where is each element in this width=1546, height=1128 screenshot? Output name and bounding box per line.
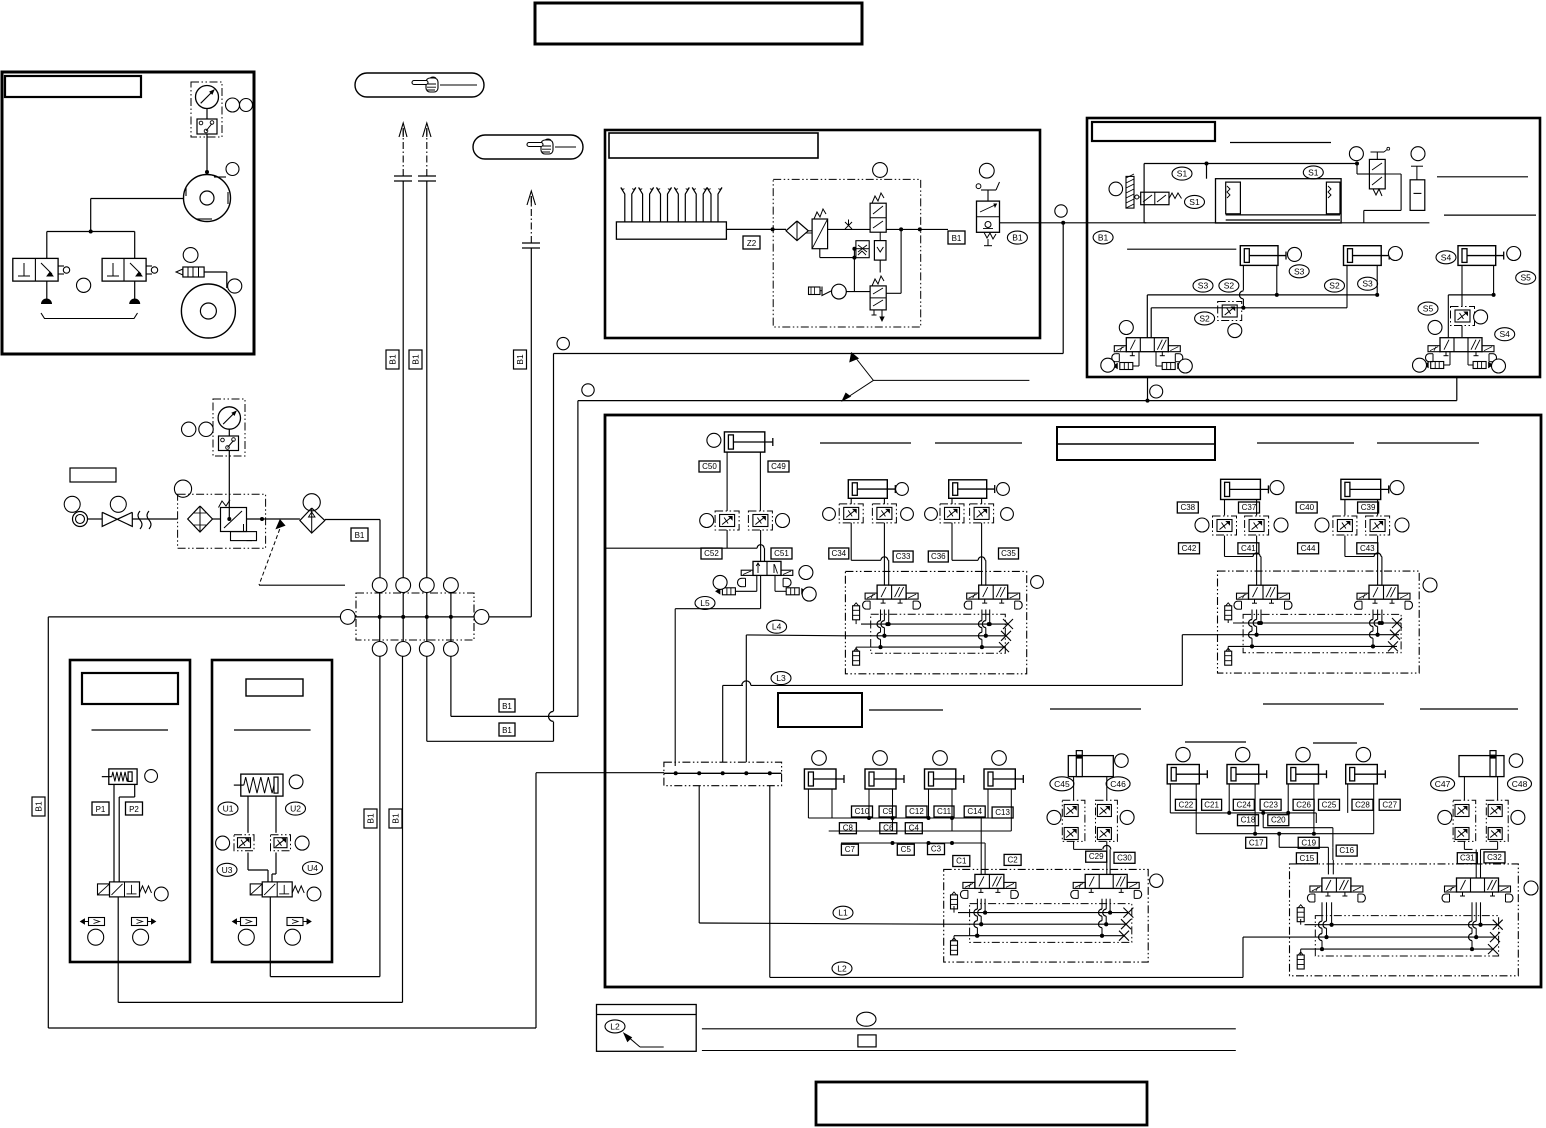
wire C38 down	[1224, 536, 1226, 557]
label C25	[1319, 799, 1340, 810]
label U3 oval	[217, 863, 237, 876]
svg-text:B1: B1	[388, 354, 398, 365]
cylinder C33	[848, 480, 887, 499]
bus3 i2	[1228, 645, 1397, 647]
svg-text:L2: L2	[610, 1021, 620, 1031]
lever valve E	[1369, 159, 1385, 189]
valve S1	[1141, 192, 1169, 205]
fcv C40	[1333, 516, 1357, 535]
wire lever-reservoir	[1385, 173, 1401, 175]
legend box	[597, 1005, 697, 1052]
fcv U left	[234, 835, 254, 851]
wire C51 drain left	[756, 575, 758, 591]
svg-text:S1: S1	[1189, 197, 1200, 207]
wire C37 down	[1256, 536, 1258, 586]
bottom title box	[816, 1082, 1147, 1125]
balloon	[992, 751, 1007, 766]
svg-text:C14: C14	[967, 807, 982, 816]
boxE blank line2	[1437, 176, 1528, 178]
wire C49 fcv down	[760, 530, 762, 561]
panel box U	[212, 660, 332, 962]
svg-text:S2: S2	[1329, 281, 1340, 291]
svg-text:C17: C17	[1249, 838, 1264, 847]
wire ES2b feet	[1346, 265, 1348, 307]
svg-text:B1: B1	[366, 813, 376, 824]
svg-text:C48: C48	[1512, 779, 1528, 789]
port balloon	[419, 578, 434, 593]
pressure gauge B	[218, 407, 240, 429]
oval S1 c	[1303, 166, 1323, 179]
muffler C51a	[722, 588, 735, 595]
label C41	[1238, 543, 1259, 554]
wire i4 vB down	[1480, 902, 1482, 924]
svg-text:C2: C2	[1007, 855, 1018, 864]
svg-text:C20: C20	[1271, 816, 1286, 825]
cylinder r2m2	[1227, 765, 1259, 784]
cylinder P	[109, 769, 137, 785]
balloon	[557, 337, 569, 349]
label C36	[928, 551, 948, 562]
bus r2m A	[1170, 812, 1316, 814]
muffler EL2	[1162, 363, 1175, 370]
valve island3 B	[1085, 874, 1127, 888]
svg-text:B1: B1	[1012, 233, 1023, 243]
cylinder row2-4	[984, 769, 1015, 789]
boxE blank line1	[1230, 142, 1331, 144]
xmark i4 3	[1488, 944, 1498, 954]
wire P out	[117, 897, 119, 962]
label U4 oval	[303, 862, 323, 875]
label C39	[1358, 502, 1379, 513]
blank line r2f	[1313, 742, 1357, 744]
label U2 oval	[286, 802, 306, 815]
svg-text:C33: C33	[896, 552, 911, 561]
balloon	[226, 163, 239, 176]
label C42	[1179, 543, 1200, 554]
valve E right	[1440, 338, 1482, 352]
muffler i2a	[1225, 606, 1232, 620]
venturi muffler	[809, 287, 821, 295]
pressure switch A	[197, 119, 217, 134]
fcv C33	[872, 504, 896, 523]
note pill 1	[355, 73, 484, 97]
balloon	[154, 887, 168, 901]
oval L3	[771, 672, 791, 685]
balloon	[174, 480, 191, 497]
box P divider line	[92, 729, 169, 731]
wire r2l into island	[980, 818, 982, 874]
balloon	[1423, 578, 1437, 592]
svg-text:Z2: Z2	[747, 239, 757, 248]
oval S5 r	[1516, 271, 1536, 284]
balloon	[1509, 754, 1523, 768]
wire r2m1 feet	[1169, 784, 1171, 813]
label C34	[829, 548, 849, 559]
port balloon	[340, 610, 355, 625]
cylinder r2m3	[1287, 765, 1319, 784]
wire C46 down	[1106, 841, 1108, 874]
label C26	[1293, 799, 1314, 810]
wire P loop	[117, 962, 119, 1002]
svg-text:B1: B1	[502, 702, 512, 711]
svg-text:L4: L4	[772, 622, 782, 632]
wire i4 vA down	[1331, 902, 1333, 924]
cylinder row2-3	[925, 769, 956, 789]
oval C45	[1050, 777, 1074, 791]
balloon	[901, 508, 914, 521]
wire S4 fcv down	[1461, 326, 1463, 338]
legend rect mark	[858, 1035, 876, 1047]
restrictor star2	[856, 241, 869, 258]
label B1 line1	[499, 699, 515, 712]
wire C39 feet	[1344, 500, 1346, 516]
balloon	[64, 496, 80, 512]
wire switch to main	[228, 451, 230, 520]
rotary pump A2	[181, 284, 235, 338]
label C9	[879, 806, 896, 817]
label C22	[1175, 799, 1196, 810]
svg-text:B1: B1	[515, 354, 525, 365]
wire r2c2 feet	[868, 789, 870, 818]
wire i3 vB down	[1109, 899, 1111, 913]
balloon	[133, 929, 149, 945]
balloon	[1413, 358, 1427, 372]
svg-text:C37: C37	[1242, 503, 1257, 512]
svg-text:S3: S3	[1198, 281, 1209, 291]
riser B1 left arrow	[402, 181, 404, 578]
oval C47	[1431, 777, 1455, 791]
hand valve A2	[102, 258, 146, 281]
label C31	[1457, 853, 1477, 864]
label C35	[999, 548, 1019, 559]
wire C33 feet	[850, 498, 852, 504]
manual valve B1	[977, 201, 1000, 232]
wire reg out	[247, 518, 300, 520]
balloon	[1388, 247, 1402, 261]
blank line boxE low	[1127, 248, 1236, 250]
xmark i2 1	[1392, 618, 1402, 628]
svg-text:C49: C49	[771, 462, 786, 471]
balloon	[285, 929, 301, 945]
muffler i4b	[1297, 955, 1304, 969]
boxE top rail	[1144, 163, 1357, 165]
hand valve A1	[13, 258, 58, 281]
rail S4 segment	[1448, 294, 1493, 296]
svg-text:C10: C10	[855, 807, 870, 816]
svg-text:U4: U4	[307, 863, 318, 873]
fcv C36	[940, 504, 964, 523]
wire C37 feet	[1224, 500, 1226, 516]
wire filter to pump2	[204, 271, 227, 273]
svg-text:C5: C5	[901, 845, 912, 854]
balloon	[228, 279, 242, 293]
label C12	[906, 806, 927, 817]
valve island4 B	[1457, 878, 1499, 892]
wire boxE right drain	[1456, 378, 1458, 401]
wire U cyl-fcv	[247, 796, 249, 833]
balloon	[199, 422, 213, 436]
wire L1	[698, 786, 700, 923]
carriage unit E	[1216, 179, 1342, 223]
valve C51 caps	[738, 578, 742, 586]
svg-text:C13: C13	[995, 808, 1010, 817]
cylinder r2m4	[1346, 765, 1378, 784]
port balloon	[372, 578, 387, 593]
balloon	[289, 775, 303, 789]
oval S4 low	[1495, 328, 1515, 341]
svg-text:C42: C42	[1182, 544, 1197, 553]
label C15	[1296, 853, 1317, 864]
svg-text:B1: B1	[411, 354, 421, 365]
cylinder ES2a	[1240, 246, 1278, 266]
label C50	[699, 461, 720, 472]
valve P	[110, 882, 140, 897]
cylinder ES4	[1458, 246, 1496, 266]
box U title block	[246, 679, 303, 696]
oval S2 low	[1195, 312, 1215, 325]
balloon	[1507, 247, 1521, 261]
svg-text:C45: C45	[1054, 779, 1070, 789]
solenoid valve D2	[870, 286, 886, 310]
blank line r2d	[1420, 708, 1518, 710]
box D title block	[609, 133, 818, 158]
exhaust A1	[41, 299, 52, 305]
valve island3 A	[975, 874, 1004, 888]
wire C39 down	[1377, 536, 1379, 586]
balloon	[226, 98, 240, 112]
wire pump to valves	[91, 198, 184, 200]
svg-text:C12: C12	[909, 807, 924, 816]
balloon	[1315, 518, 1329, 532]
balloon	[1492, 359, 1506, 373]
regulator D	[812, 219, 828, 249]
bus2 i1	[845, 635, 1006, 637]
balloon	[110, 496, 126, 512]
manifold rail	[341, 616, 489, 618]
balloon	[238, 929, 254, 945]
filter unit dashdot	[178, 494, 266, 548]
fcv grp C45	[1062, 800, 1085, 841]
balloon	[707, 433, 721, 447]
wire reg feedback	[819, 249, 821, 258]
muffler i2b	[1225, 651, 1232, 665]
wire pilot loop	[886, 228, 948, 230]
oval S3 m	[1193, 279, 1213, 292]
svg-text:C30: C30	[1117, 853, 1132, 862]
wire supply riser	[379, 577, 381, 579]
wall mount S1	[1126, 176, 1134, 208]
oval S2 m	[1219, 279, 1239, 292]
wire C36 down	[951, 523, 953, 561]
port balloon	[372, 642, 387, 657]
svg-text:U1: U1	[223, 804, 234, 814]
legend line2	[702, 1050, 1236, 1052]
muffler i3b	[951, 941, 958, 955]
muffler ER2	[1473, 362, 1486, 369]
wire r2c3 feet	[928, 789, 930, 818]
svg-text:C27: C27	[1382, 800, 1397, 809]
lubricator	[300, 508, 325, 533]
svg-text:U3: U3	[222, 865, 233, 875]
balloon	[1524, 881, 1538, 895]
boxF title block row1	[1057, 427, 1215, 460]
muffler ER1	[1431, 362, 1444, 369]
oval S5 l	[1418, 302, 1438, 315]
balloon	[1395, 518, 1409, 532]
fcv C38	[1213, 516, 1237, 535]
box U divider line	[234, 729, 311, 731]
wire C49 feet	[726, 452, 728, 511]
svg-text:B1: B1	[1098, 232, 1109, 242]
svg-text:S5: S5	[1423, 304, 1434, 314]
wire P cyl-valve	[113, 784, 115, 882]
svg-text:C52: C52	[704, 549, 719, 558]
wire boxD drain	[1062, 223, 1064, 354]
legend arrow	[640, 1046, 664, 1048]
label B1 PU1	[364, 809, 377, 828]
clamp cyl C47	[1459, 756, 1504, 777]
label C44	[1298, 543, 1319, 554]
wire boxD out	[1000, 222, 1147, 224]
cylinder C35	[949, 480, 987, 499]
svg-text:C9: C9	[882, 807, 893, 816]
bus3 i4	[1301, 948, 1493, 950]
label C2	[1004, 854, 1021, 865]
panel box A	[2, 72, 254, 354]
label C27	[1379, 799, 1400, 810]
label B1 loop	[32, 797, 45, 816]
riser B1 third arrow	[530, 248, 532, 617]
svg-text:S4: S4	[1499, 329, 1510, 339]
bus3 i3	[954, 935, 1124, 937]
balloon	[873, 751, 888, 766]
leader fork	[855, 357, 1029, 380]
svg-text:B1: B1	[952, 234, 962, 243]
fcv grp C46	[1096, 800, 1118, 841]
label C30	[1114, 852, 1135, 863]
wire U out	[269, 897, 271, 962]
fcv S2	[1218, 302, 1242, 321]
port balloon	[396, 642, 411, 657]
gauge2 dashdot frame	[213, 399, 245, 456]
island r2 right	[1290, 864, 1519, 976]
svg-text:C39: C39	[1361, 503, 1376, 512]
balloon	[216, 836, 230, 850]
wire L5	[760, 575, 762, 608]
label C21	[1202, 799, 1222, 810]
svg-text:S3: S3	[1362, 279, 1373, 289]
label C5	[897, 844, 914, 855]
balloon	[1178, 359, 1192, 373]
island r1 left	[845, 571, 1026, 673]
wire i3 vA down	[984, 899, 986, 913]
cylinder ES2b	[1344, 246, 1382, 266]
svg-text:L1: L1	[838, 908, 848, 918]
svg-text:S2: S2	[1199, 313, 1210, 323]
venturi triangle	[822, 287, 831, 296]
oval L5	[695, 597, 715, 610]
oval S3 g2	[1358, 277, 1378, 290]
panel box D	[605, 130, 1040, 338]
wire C47 legs	[1463, 777, 1465, 801]
oval C46	[1106, 777, 1130, 791]
oval S4 r	[1436, 251, 1456, 264]
wire C40 down	[1344, 536, 1346, 557]
svg-text:C38: C38	[1180, 503, 1195, 512]
balloon	[1120, 810, 1134, 824]
port balloon	[396, 578, 411, 593]
muffler i1b	[853, 651, 860, 665]
rail S3	[1147, 294, 1377, 296]
svg-text:C16: C16	[1339, 846, 1354, 855]
balloon	[240, 99, 253, 112]
balloon	[1055, 205, 1067, 217]
svg-text:L2: L2	[837, 963, 847, 973]
wire L4	[745, 635, 747, 762]
oval L2	[832, 962, 852, 975]
Lmanifold dashdot	[664, 762, 782, 786]
bus1 i1	[861, 623, 1008, 625]
leader blank label	[259, 523, 282, 585]
fcv C50	[715, 511, 739, 530]
oval C48	[1508, 777, 1532, 791]
island4 inner dashdot	[1315, 916, 1498, 956]
svg-text:S3: S3	[1294, 266, 1305, 276]
label B1 riser2	[409, 350, 422, 369]
box A title block	[5, 76, 141, 97]
svg-text:C44: C44	[1301, 544, 1316, 553]
svg-text:C19: C19	[1301, 838, 1316, 847]
shutoff valve	[102, 512, 117, 526]
valve C51	[753, 561, 781, 575]
cylinder row2-1	[804, 769, 836, 789]
rotary pump A1	[184, 175, 231, 222]
balloon	[88, 929, 104, 945]
balloon	[1511, 810, 1525, 824]
balloon	[1428, 320, 1442, 334]
label C37	[1239, 502, 1260, 513]
wire C51 drain right	[774, 575, 776, 591]
svg-text:C47: C47	[1435, 779, 1451, 789]
top title box	[535, 3, 862, 44]
panel box F	[605, 415, 1541, 987]
check valve D	[874, 241, 886, 261]
balloon	[1228, 324, 1242, 338]
balloon	[896, 483, 909, 496]
island3 inner dashdot	[970, 904, 1132, 943]
balloon	[1195, 518, 1209, 532]
svg-text:S5: S5	[1520, 273, 1531, 283]
oval S1 b	[1185, 195, 1205, 208]
balloon	[799, 566, 813, 580]
svg-text:P2: P2	[129, 805, 139, 814]
oval L4	[767, 620, 787, 633]
bus1 i2	[1233, 622, 1401, 624]
nozzle manifold	[616, 222, 726, 239]
balloon	[1001, 508, 1014, 521]
wire B1 bottom loop	[47, 617, 49, 1028]
hose squiggle	[138, 511, 151, 529]
blank line r2a	[869, 709, 943, 711]
balloon	[1356, 747, 1370, 761]
label B1 boxD	[948, 231, 965, 244]
exhaust check P right	[132, 918, 148, 926]
fcv C35	[970, 504, 994, 523]
wire supply to manifold	[48, 616, 341, 618]
cylinder r2m1	[1167, 765, 1199, 784]
balloon	[1288, 247, 1302, 261]
balloon	[295, 836, 309, 850]
